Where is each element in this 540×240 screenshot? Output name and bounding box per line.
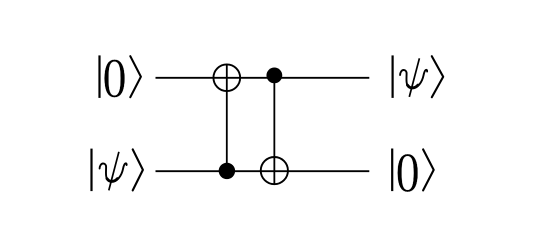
CNOT gate 2 vertical connector [273, 75, 275, 184]
ket bar of output |0> on qubit 1 [391, 149, 393, 192]
ket bar of output |psi> on qubit 0 [392, 55, 394, 98]
psi of output ket |psi> qubit 0 [400, 58, 427, 97]
right angle bracket of input |0> qubit 0 [130, 56, 141, 97]
svg-text:0: 0 [103, 48, 127, 110]
ket bar of input |psi> on qubit 1 [90, 149, 92, 192]
digit 0 of output ket |0> qubit 1 [396, 142, 420, 204]
psi of input ket |psi> qubit 1 [100, 152, 127, 191]
CNOT gate 2 control dot on qubit 0 [266, 68, 282, 84]
ket bar of input |0> on qubit 0 [98, 55, 100, 98]
digit 0 of input ket |0> qubit 0 [103, 48, 127, 110]
svg-text:0: 0 [396, 142, 420, 204]
CNOT gate 1 control dot on qubit 1 [219, 163, 235, 179]
wire qubit 1 (bottom) [156, 170, 370, 172]
right angle bracket of input |psi> qubit 1 [133, 149, 143, 190]
CNOT gate 1 target circle (XOR) on qubit 0 [213, 64, 240, 91]
CNOT gate 1 vertical connector [226, 64, 228, 171]
right angle bracket of output |0> qubit 1 [423, 149, 434, 190]
right angle bracket of output |psi> qubit 0 [432, 56, 443, 97]
CNOT gate 2 target circle (XOR) on qubit 1 [261, 157, 288, 184]
wire qubit 0 (top) [156, 77, 370, 79]
